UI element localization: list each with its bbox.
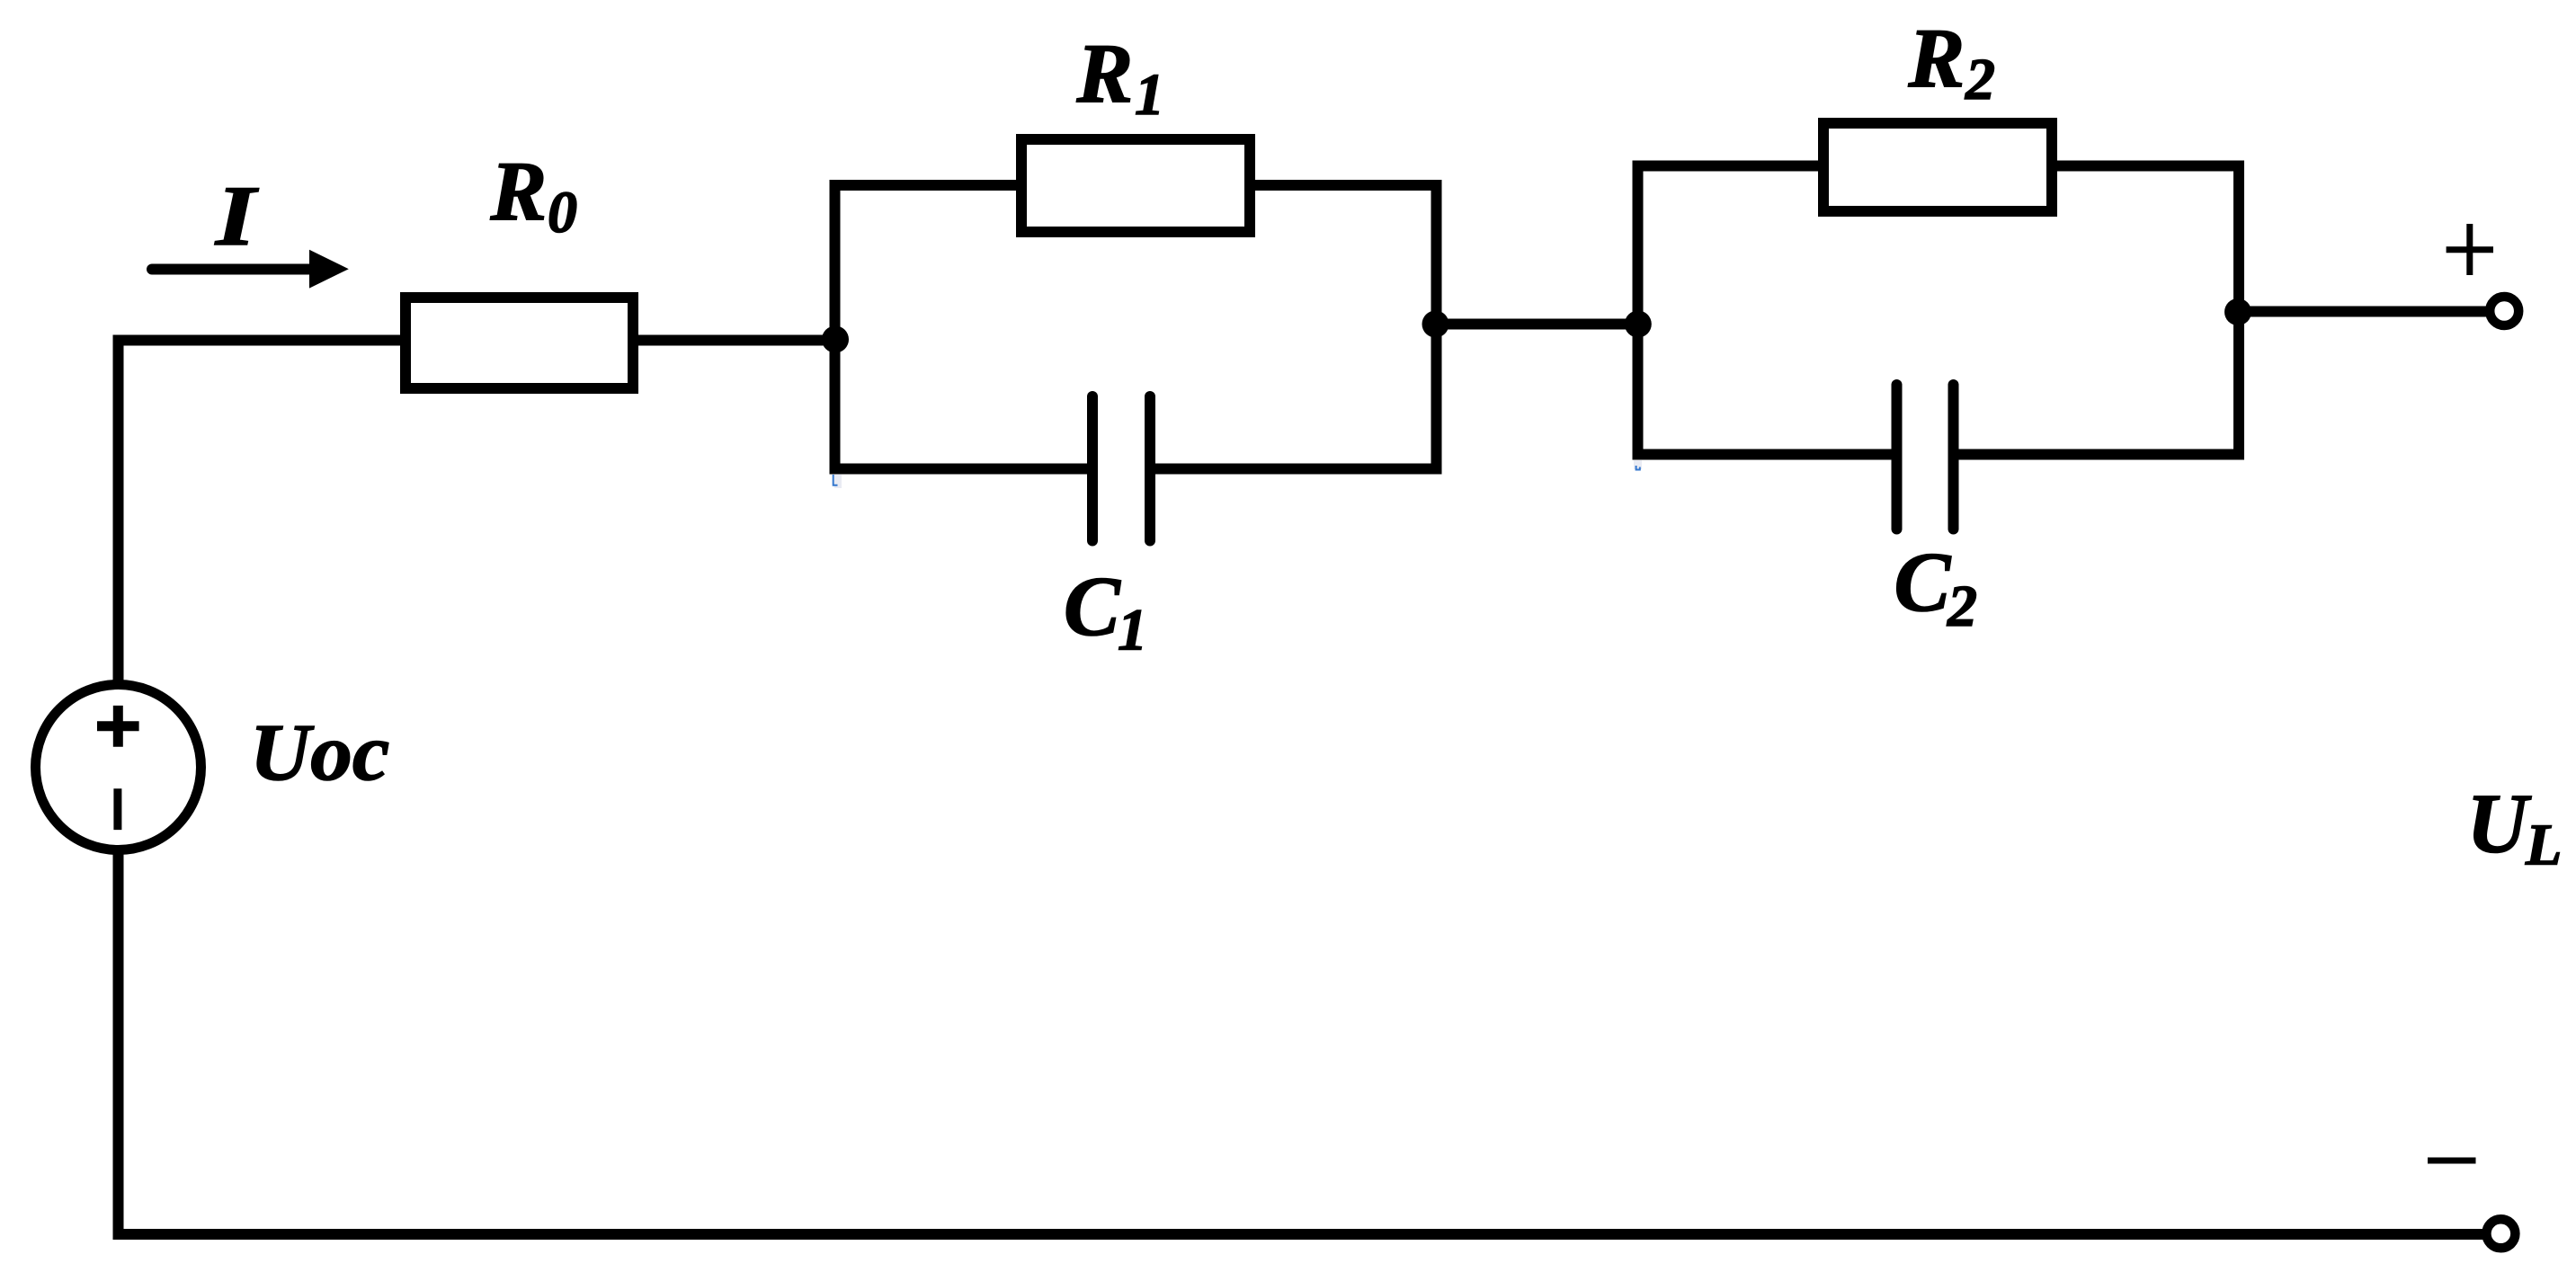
- svg-text:1: 1: [1135, 62, 1164, 128]
- current arrow I head: [309, 250, 349, 289]
- wire node D to positive terminal: [2239, 307, 2489, 317]
- voltage source minus sign (vertical bar): [113, 788, 121, 830]
- capacitor C2 gap mask: [1903, 434, 1948, 473]
- svg-text:R: R: [490, 145, 548, 238]
- capacitor C1 gap mask: [1098, 449, 1145, 488]
- capacitor C1 plates: [1087, 396, 1098, 541]
- voltage source Uoc circle: [36, 685, 201, 850]
- resistor R2: [1823, 123, 2052, 211]
- svg-text:U: U: [2467, 778, 2532, 871]
- wire R0 right to node A: [633, 335, 835, 346]
- current arrow I shaft: [152, 264, 310, 275]
- voltage source plus sign: [97, 706, 139, 747]
- svg-text:L: L: [2525, 813, 2562, 878]
- svg-text:R: R: [1076, 27, 1134, 120]
- R1-C1 parallel loop wires: [835, 185, 1437, 469]
- svg-text:C: C: [1894, 536, 1952, 629]
- svg-text:R: R: [1908, 12, 1965, 105]
- capacitor C2 plates: [1892, 385, 1903, 529]
- resistor R1: [1021, 139, 1250, 232]
- wire between loops: [1436, 319, 1638, 330]
- blue artifact near loop1 corner: [834, 475, 842, 488]
- plus label at output: [2447, 224, 2493, 275]
- negative output terminal (open circle): [2486, 1219, 2515, 1248]
- node D junction dot: [2224, 298, 2251, 325]
- node B junction dot: [1422, 311, 1449, 338]
- resistor R0: [406, 298, 633, 388]
- svg-text:1: 1: [1118, 598, 1147, 663]
- minus label at output: [2428, 1158, 2476, 1164]
- wire left vertical upper (source top to top rail): [113, 335, 124, 686]
- blue artifact near loop2 corner: [1634, 460, 1642, 469]
- svg-text:2: 2: [1947, 574, 1977, 639]
- positive output terminal (open circle): [2490, 297, 2518, 325]
- svg-text:I: I: [214, 168, 259, 263]
- node A junction dot: [822, 326, 849, 353]
- wire bottom rail to negative terminal: [113, 1229, 2485, 1240]
- svg-text:2: 2: [1965, 47, 1995, 112]
- node C junction dot: [1625, 311, 1652, 338]
- wire top-left horizontal from source branch to R0: [113, 335, 406, 346]
- wire left vertical lower (source bottom to bottom rail): [113, 850, 124, 1240]
- svg-text:0: 0: [548, 180, 577, 245]
- svg-text:C: C: [1064, 560, 1121, 654]
- svg-text:Uoc: Uoc: [250, 707, 389, 796]
- R2-C2 parallel loop wires: [1638, 166, 2240, 455]
